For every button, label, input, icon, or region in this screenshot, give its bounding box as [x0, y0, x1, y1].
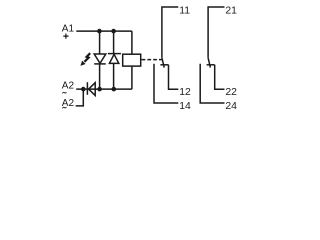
mechanical link to contact (dashed)	[142, 59, 162, 61]
node terminal 14 label	[179, 101, 191, 112]
svg-text:A1: A1	[62, 24, 75, 35]
node junction dot bottom diode branch	[112, 87, 117, 92]
node A1 label	[62, 24, 75, 35]
contact 2 moving contact	[208, 58, 210, 68]
node terminal 24 label	[225, 101, 237, 112]
node A2 labels	[62, 81, 75, 109]
svg-text:21: 21	[225, 6, 237, 17]
contact 2 fixed contact bar	[207, 64, 215, 66]
wire diode branch top	[113, 31, 115, 53]
contact 1 fixed contact bar	[160, 64, 168, 66]
contact 2: terminal 21 lead and common	[208, 7, 224, 58]
wire terminal 12 lead	[169, 65, 179, 90]
wire A1 top bus	[76, 30, 132, 32]
LED indicator lightning arrow	[81, 53, 90, 65]
plus polarity mark	[63, 34, 68, 39]
svg-text:12: 12	[179, 87, 191, 98]
wire terminal 14 lead	[154, 64, 178, 103]
relay coil K1	[123, 31, 141, 89]
contact 1 moving contact	[162, 58, 164, 68]
tilde mark under second A2	[62, 107, 66, 108]
wire A2 second-terminal stub	[76, 89, 84, 106]
LED D1 (cathode down)	[94, 54, 106, 89]
node junction dot top LED branch	[97, 29, 102, 34]
node junction dot A2 stub	[81, 87, 86, 92]
node junction dot bottom LED branch	[97, 87, 102, 92]
node terminal 12 label	[179, 87, 191, 98]
svg-text:24: 24	[225, 101, 237, 112]
node terminal 22 label	[225, 87, 237, 98]
wire LED branch top	[99, 31, 101, 54]
node terminal 21 label	[225, 6, 237, 17]
tilde mark under first A2	[62, 92, 66, 93]
svg-text:22: 22	[225, 87, 237, 98]
contact 1: terminal 11 lead and common	[162, 7, 178, 58]
diode D3 (series in A2 line, cathode left)	[87, 82, 95, 95]
wire A2 bottom bus	[76, 88, 132, 90]
node junction dot top diode branch	[111, 29, 116, 34]
diode D2 (anode down, antiparallel to LED)	[108, 54, 121, 90]
wire terminal 22 lead	[215, 65, 225, 90]
node terminal 11 label	[179, 6, 190, 17]
wire terminal 24 lead	[200, 64, 224, 103]
svg-text:A2: A2	[62, 81, 75, 92]
svg-text:11: 11	[179, 6, 190, 17]
svg-text:14: 14	[179, 101, 191, 112]
